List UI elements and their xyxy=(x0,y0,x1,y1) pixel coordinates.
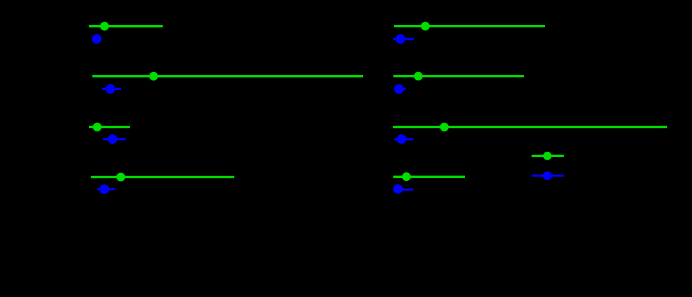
left panel row4 blue errorbar xyxy=(97,184,115,194)
right panel row4 green errorbar xyxy=(393,172,465,181)
right panel row3 green errorbar xyxy=(393,123,667,132)
left panel row2 blue errorbar xyxy=(102,84,121,94)
legend blue errorbar handle xyxy=(532,171,564,180)
right panel row1 green errorbar xyxy=(394,22,545,31)
right panel row4 blue errorbar xyxy=(393,184,413,194)
left panel row1 green errorbar xyxy=(89,22,163,31)
left panel row1 blue errorbar xyxy=(92,34,102,44)
left panel row3 blue errorbar xyxy=(103,134,126,144)
left panel row2 green errorbar xyxy=(92,72,363,81)
right panel row3 blue errorbar xyxy=(394,134,414,144)
left panel row3 green errorbar xyxy=(89,123,130,132)
right panel row2 green errorbar xyxy=(393,72,524,81)
legend green errorbar handle xyxy=(532,152,564,160)
left panel row4 green errorbar xyxy=(91,173,234,182)
right panel row1 blue errorbar xyxy=(393,34,414,44)
right panel row2 blue errorbar xyxy=(394,84,406,94)
